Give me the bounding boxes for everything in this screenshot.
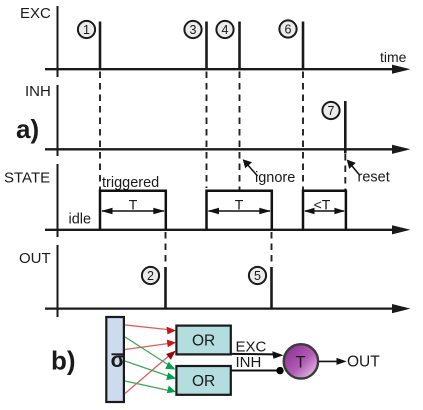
svg-text:OUT: OUT	[19, 250, 51, 267]
INH baseline (time axis)	[45, 148, 396, 150]
OUT vertical axis	[57, 245, 59, 317]
INH wire to timer	[231, 370, 278, 372]
svg-text:OUT: OUT	[347, 354, 380, 371]
svg-text:time: time	[380, 49, 407, 65]
svg-text:STATE: STATE	[4, 170, 50, 187]
svg-text:T: T	[235, 197, 244, 213]
circle label 1	[78, 21, 95, 38]
green synapse wire 1	[125, 337, 171, 367]
dashed guide from spike 1	[99, 72, 101, 191]
OUT spike 5	[270, 267, 273, 309]
STATE vertical axis	[57, 164, 59, 237]
green arrowhead 3	[167, 386, 176, 394]
green synapse wire 2	[125, 361, 171, 377]
svg-text:<T: <T	[314, 197, 331, 213]
green arrowhead 1	[165, 362, 175, 370]
green arrowhead 2	[166, 372, 176, 380]
circle label 3	[184, 21, 201, 38]
EXC spike 3	[205, 22, 208, 70]
green synapse wire 3	[125, 381, 171, 391]
svg-text:T: T	[129, 197, 138, 213]
T span arrow pulse 3 (<T)	[304, 197, 345, 215]
svg-text:EXC: EXC	[236, 338, 267, 355]
EXC wire arrowhead	[272, 351, 283, 359]
red arrowhead 3 (dark)	[166, 351, 176, 360]
svg-text:4: 4	[222, 23, 229, 37]
svg-text:INH: INH	[25, 83, 51, 100]
red synapse wire 3	[125, 354, 171, 394]
STATE pulse 2	[207, 191, 272, 230]
svg-text:6: 6	[285, 23, 292, 37]
OUT time axis arrowhead	[392, 304, 411, 313]
circle label 7	[322, 102, 339, 119]
OUT wire from timer	[319, 360, 338, 362]
svg-text:OR: OR	[192, 373, 215, 390]
dashed guide pulse2 fall to OUT spike 5	[271, 232, 273, 266]
EXC wire to timer	[231, 353, 274, 356]
INH spike 7	[344, 101, 347, 154]
sigma-bar label	[111, 349, 125, 372]
T span arrow pulse 2	[208, 197, 271, 215]
svg-text:σ: σ	[111, 349, 125, 372]
OUT wire arrowhead	[337, 358, 347, 365]
STATE pulse 3	[303, 191, 346, 230]
svg-text:ignore: ignore	[255, 170, 295, 186]
timer T circle	[284, 344, 318, 378]
ignore annotation arrow	[243, 159, 296, 186]
STATE time axis arrowhead	[392, 225, 411, 234]
svg-text:reset: reset	[358, 170, 390, 186]
STATE pulse 1	[100, 191, 166, 230]
dashed guide from spike 3	[206, 72, 208, 189]
EXC time axis arrowhead	[392, 65, 411, 74]
svg-text:T: T	[295, 353, 305, 371]
svg-text:EXC: EXC	[20, 5, 51, 22]
OR gate block top	[176, 326, 230, 355]
svg-text:1: 1	[83, 23, 90, 37]
svg-text:2: 2	[147, 269, 154, 283]
EXC spike 4	[238, 22, 241, 70]
svg-text:3: 3	[190, 23, 197, 37]
dashed guide from spike 7	[344, 154, 346, 190]
STATE baseline (time axis)	[45, 229, 396, 231]
svg-text:a): a)	[16, 114, 39, 144]
red synapse wire 2	[125, 343, 172, 350]
T span arrow pulse 1	[101, 197, 165, 215]
svg-text:7: 7	[328, 104, 335, 118]
red arrowhead 1	[167, 327, 177, 335]
red synapse wire 1	[125, 325, 172, 330]
svg-text:b): b)	[51, 346, 76, 376]
INH inhibitory dot	[276, 367, 283, 374]
circle label 5	[249, 267, 266, 284]
circle label 6	[279, 20, 296, 37]
dashed guide from spike 6	[302, 72, 304, 191]
dashed guide pulse1 fall to OUT spike 2	[165, 232, 167, 266]
circle label 4	[216, 21, 233, 38]
EXC vertical axis	[57, 6, 59, 77]
OUT baseline (time axis)	[45, 307, 396, 309]
svg-text:OR: OR	[192, 333, 215, 350]
OUT spike 2	[164, 267, 167, 309]
svg-text:INH: INH	[236, 354, 262, 371]
INH time axis arrowhead	[392, 145, 411, 154]
OR gate block bottom	[176, 366, 230, 395]
INH vertical axis	[57, 85, 59, 156]
svg-text:idle: idle	[69, 212, 92, 228]
red arrowhead 2	[167, 340, 176, 348]
dashed guide from spike 4	[239, 72, 241, 191]
svg-text:triggered: triggered	[102, 175, 159, 191]
circle label 2	[142, 267, 159, 284]
EXC baseline (time axis)	[45, 68, 396, 70]
reset annotation arrow	[347, 160, 390, 186]
sigma block	[106, 317, 124, 402]
EXC spike 6	[302, 22, 305, 70]
svg-text:5: 5	[254, 269, 261, 283]
EXC spike 1	[99, 22, 102, 70]
